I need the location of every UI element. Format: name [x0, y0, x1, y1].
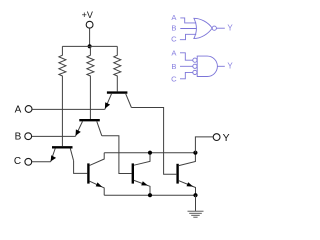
- node emitter rail right: [193, 193, 197, 197]
- terminal B: [25, 133, 32, 140]
- terminal +V: [86, 21, 93, 28]
- wire output Y: [195, 137, 213, 153]
- svg-text:A: A: [171, 48, 177, 57]
- svg-text:B: B: [171, 24, 176, 33]
- terminal C: [25, 158, 32, 165]
- node supply junction: [88, 44, 92, 48]
- terminal Y: [213, 134, 220, 141]
- transistor Q3 input C: [51, 147, 74, 162]
- svg-text:B: B: [171, 62, 176, 71]
- wire gate2 output: [217, 65, 224, 67]
- svg-text:B: B: [15, 132, 22, 143]
- wire to ground: [195, 195, 197, 211]
- svg-text:Y: Y: [227, 62, 233, 71]
- transistor Q5 bottom middle: [133, 153, 150, 196]
- gate U2 input bubble B: [193, 64, 197, 68]
- transistor Q2 input B: [75, 120, 101, 136]
- svg-text:Y: Y: [227, 24, 233, 33]
- wire gate1 input B: [180, 28, 196, 30]
- svg-text:A: A: [15, 105, 22, 116]
- svg-text:C: C: [14, 156, 21, 167]
- transistor Q4 bottom left: [88, 153, 104, 196]
- gate U1 NOR body: [194, 18, 212, 38]
- wire Q3 collector to Q4 base: [74, 161, 88, 174]
- resistor R1: [59, 46, 66, 146]
- resistor R2: [87, 46, 94, 119]
- wire Q2 collector to Q5 base: [102, 136, 132, 174]
- wire +V to rail: [89, 28, 91, 46]
- wire collector rail: [104, 152, 195, 154]
- node emitter rail left: [148, 193, 152, 197]
- wire emitter rail: [104, 194, 195, 196]
- gate U2 negative-AND body: [197, 56, 217, 76]
- wire gate1 input A: [180, 18, 196, 23]
- wire gate2 input B: [180, 65, 193, 67]
- transistor Q6 bottom right: [178, 153, 196, 196]
- gate U2 input bubble C: [193, 70, 197, 74]
- svg-text:A: A: [171, 13, 177, 22]
- resistor R3: [114, 46, 121, 91]
- wire input C: [32, 161, 51, 163]
- wire gate1 output: [216, 27, 224, 29]
- wire input A: [32, 108, 105, 110]
- svg-text:C: C: [171, 74, 177, 83]
- terminal A: [25, 106, 32, 113]
- wire supply rail: [62, 45, 117, 47]
- wire gate2 input C: [180, 72, 193, 78]
- gate U2 input bubble A: [193, 58, 197, 62]
- svg-text:+V: +V: [82, 10, 93, 20]
- svg-text:C: C: [171, 35, 177, 44]
- node collector rail left: [148, 151, 152, 155]
- wire gate2 input A: [180, 53, 193, 60]
- wire Q1 collector to Q6 base: [131, 108, 176, 175]
- wire input B: [32, 135, 76, 137]
- wire gate1 input C: [180, 34, 196, 39]
- node collector rail right: [193, 151, 197, 155]
- gate U1 output bubble: [212, 26, 216, 30]
- transistor Q1 input A: [105, 93, 132, 110]
- ground: [188, 211, 204, 217]
- svg-text:Y: Y: [223, 132, 230, 144]
